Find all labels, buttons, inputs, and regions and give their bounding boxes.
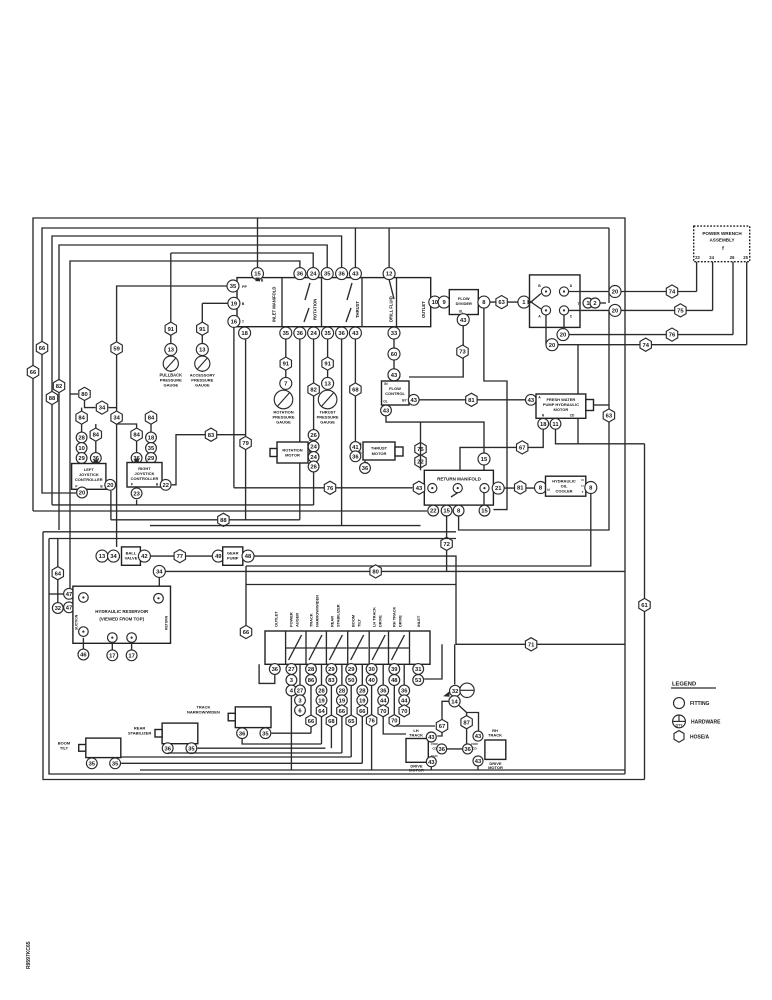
wire col lh track [371, 664, 373, 770]
svg-text:T: T [582, 490, 584, 494]
hose 82 [53, 379, 64, 392]
boom tilt cylinder [86, 738, 121, 758]
svg-text:88: 88 [220, 518, 227, 524]
svg-text:76: 76 [327, 486, 334, 492]
thrust motor shaft tab [395, 447, 403, 456]
wire col inlet stub [417, 662, 419, 665]
fitting 43 [388, 369, 400, 381]
svg-text:79: 79 [242, 441, 249, 447]
wire OL to return manifold [386, 416, 484, 470]
fitting 43 [388, 369, 400, 381]
svg-text:42: 42 [141, 554, 147, 560]
fitting 34 [108, 550, 120, 562]
wire inlet riser [424, 644, 442, 679]
hose 66 [357, 705, 367, 717]
svg-text:36: 36 [401, 689, 408, 695]
svg-text:84: 84 [133, 433, 140, 439]
wire B to accessory gauge [202, 302, 228, 304]
fitting 46 [78, 649, 89, 660]
wire flow divider OL [409, 315, 463, 378]
svg-text:70: 70 [401, 709, 407, 715]
fitting 32 [450, 685, 461, 696]
svg-text:35: 35 [188, 746, 195, 752]
fitting 42 [138, 550, 150, 562]
svg-text:91: 91 [168, 327, 175, 333]
svg-text:10: 10 [432, 300, 438, 306]
wire mid bus C [150, 525, 421, 527]
svg-text:47: 47 [66, 592, 72, 598]
svg-text:ASSEMBLY: ASSEMBLY [709, 238, 734, 243]
svg-text:INLET MANIFOLD: INLET MANIFOLD [272, 287, 277, 322]
svg-text:BOOM: BOOM [351, 615, 356, 627]
svg-text:28: 28 [308, 667, 315, 673]
fitting 23 [131, 488, 142, 499]
hose 76 [324, 481, 335, 494]
wire BM2 stub [131, 642, 133, 650]
hose 91 [280, 357, 291, 370]
wire flow divider drain to return manifold [484, 308, 507, 510]
svg-text:36: 36 [297, 331, 304, 337]
wire inside stub [483, 493, 485, 505]
svg-text:THRUST: THRUST [371, 446, 388, 451]
fitting 36 [269, 664, 280, 675]
fitting 47 [64, 588, 75, 599]
wire valve bank feed [246, 584, 456, 586]
rear stabilizer rod tab [155, 730, 162, 738]
hose 70 [399, 705, 409, 717]
fitting 35 [86, 758, 97, 769]
fitting 86 [306, 675, 317, 686]
fitting 24 [308, 327, 320, 339]
svg-text:22: 22 [162, 483, 168, 489]
gauge rotation pressure [274, 390, 293, 409]
left joystick controller [72, 464, 106, 490]
wire manifold divider 1 [281, 278, 283, 327]
hose 67 [436, 719, 447, 732]
wire col power auger [290, 664, 292, 770]
fitting 24 [308, 441, 319, 452]
svg-text:24: 24 [310, 455, 317, 461]
wire bank divider 7 [409, 631, 411, 664]
hose 67 [517, 441, 528, 454]
svg-text:87: 87 [463, 720, 469, 726]
wire inner bottom frame [49, 539, 625, 775]
fitting 29 [346, 664, 357, 675]
svg-text:R9597KC65: R9597KC65 [26, 941, 32, 969]
svg-text:63: 63 [606, 414, 613, 420]
fitting 19 [337, 695, 348, 706]
svg-text:STABILIZER: STABILIZER [128, 731, 151, 736]
fitting 60 [388, 348, 400, 360]
track valve bank [265, 631, 430, 664]
svg-text:TILT: TILT [357, 618, 362, 627]
svg-text:HARDWARE: HARDWARE [691, 720, 721, 726]
hose 88 [218, 513, 229, 526]
svg-text:31: 31 [415, 667, 422, 673]
fitting 36 [294, 327, 306, 339]
svg-text:NARROW/WIDEN: NARROW/WIDEN [315, 595, 320, 627]
reservoir port BL [79, 627, 89, 637]
svg-text:13: 13 [324, 381, 331, 387]
svg-text:RETURN MANIFOLD: RETURN MANIFOLD [437, 477, 481, 482]
wire bank divider 4 [347, 631, 349, 664]
svg-text:CONTROLLER: CONTROLLER [131, 476, 159, 481]
svg-text:80: 80 [372, 569, 378, 575]
svg-text:81: 81 [468, 398, 475, 404]
hose 66 [306, 715, 316, 727]
svg-text:20: 20 [107, 483, 113, 489]
wire bank mid line [369, 647, 389, 649]
svg-text:23: 23 [695, 255, 700, 260]
hose 66 [240, 625, 251, 638]
svg-text:13: 13 [99, 554, 106, 560]
svg-text:49: 49 [215, 554, 222, 560]
svg-text:67: 67 [439, 724, 445, 730]
fitting 9 [438, 296, 450, 308]
svg-text:43: 43 [428, 760, 435, 766]
svg-text:43: 43 [352, 272, 359, 278]
fitting 15 [479, 505, 490, 516]
svg-text:43: 43 [475, 734, 482, 740]
wire bus1 top loop [33, 218, 625, 774]
fitting 21 [492, 482, 504, 494]
wire mid bus D [52, 504, 314, 506]
svg-text:63: 63 [498, 300, 505, 306]
valve block port D [559, 287, 568, 296]
svg-text:28: 28 [78, 436, 85, 442]
svg-text:VALVE: VALVE [125, 556, 138, 561]
svg-text:83: 83 [328, 678, 335, 684]
fitting 44 [378, 695, 389, 706]
wire fitting36 column to bus [341, 339, 343, 526]
wire bus2 to return-manifold fitting 8 [459, 311, 609, 530]
svg-text:59: 59 [113, 346, 120, 352]
wire valve block internal [531, 294, 541, 310]
hose 79 [240, 436, 251, 449]
svg-text:35: 35 [283, 331, 290, 337]
fitting 35 [110, 758, 121, 769]
svg-text:GAUGE: GAUGE [163, 383, 178, 388]
fitting 22 [160, 479, 171, 490]
svg-text:HYDRAULIC RESERVOIR: HYDRAULIC RESERVOIR [95, 609, 149, 614]
fitting 35 [146, 443, 157, 454]
fitting 43 [457, 314, 469, 326]
wire hose 83 run [172, 435, 246, 485]
wire left controller column 2 [95, 424, 97, 464]
hose 68 [350, 383, 361, 396]
hose 91 [197, 322, 208, 335]
legend hardware symbol [673, 715, 686, 728]
fitting 26 [308, 430, 319, 441]
wire fitting23 drop [136, 500, 138, 505]
wire valve lower row 1 [564, 315, 733, 335]
svg-text:65: 65 [348, 719, 355, 725]
wire to pin 25 [746, 262, 748, 345]
fitting 36 [360, 463, 371, 474]
fitting 43 [473, 731, 483, 741]
svg-text:13: 13 [168, 348, 175, 354]
wire gear pump to hose 71 [254, 556, 625, 644]
hose 84 [145, 411, 156, 424]
svg-text:18: 18 [540, 422, 547, 428]
wire mid bus 88 [111, 519, 300, 521]
fitting 22 [428, 505, 439, 516]
wire suction drop [57, 539, 59, 603]
port tab left controller [94, 460, 98, 464]
svg-text:64: 64 [55, 571, 62, 577]
svg-text:19: 19 [231, 301, 238, 307]
wire gauge 32 feed [454, 644, 456, 684]
svg-text:36: 36 [380, 689, 387, 695]
fitting 43 [381, 405, 392, 416]
svg-text:PP: PP [242, 285, 247, 289]
lh track drive motor [406, 739, 428, 763]
hose 22 [415, 455, 426, 468]
port tab right controller [134, 459, 138, 463]
wire col track nw 2 [321, 664, 323, 744]
svg-text:44: 44 [401, 698, 408, 704]
fitting 10 [429, 296, 441, 308]
fitting 19 [228, 297, 240, 309]
fitting 40 [366, 675, 377, 686]
hose 34 [111, 411, 122, 424]
wire rh drain [477, 766, 479, 770]
fitting 8 [453, 505, 464, 516]
wire fitting15 riser [257, 218, 259, 268]
svg-text:34: 34 [156, 569, 163, 575]
hose 75 [675, 304, 686, 317]
fitting 28 [357, 685, 368, 696]
fitting 3 [286, 675, 297, 686]
wire controller B drop [110, 491, 112, 520]
fitting 48 [242, 550, 254, 562]
svg-text:15: 15 [481, 457, 488, 463]
wire 87 to fitting 36 [466, 729, 468, 744]
fitting 17 [126, 650, 137, 661]
hose 74 [666, 285, 677, 298]
svg-text:GAUGE: GAUGE [320, 420, 335, 425]
fitting 30 [366, 664, 377, 675]
wire fw N to return manifold [460, 429, 543, 470]
wire lh drain [430, 767, 432, 770]
svg-text:43: 43 [460, 318, 467, 324]
fitting 32 [52, 603, 63, 614]
flow divider [449, 290, 478, 315]
fitting 36 [463, 744, 473, 754]
svg-text:DIVIDER: DIVIDER [456, 301, 472, 306]
svg-text:66: 66 [359, 709, 366, 715]
svg-text:35: 35 [112, 761, 119, 767]
svg-text:32: 32 [55, 606, 61, 612]
svg-text:7: 7 [284, 381, 287, 387]
svg-text:HOSE/A: HOSE/A [690, 735, 710, 741]
svg-text:36: 36 [164, 746, 171, 752]
svg-text:CONTROL: CONTROL [385, 391, 405, 396]
fitting 36 [294, 268, 306, 280]
hose 77 [174, 550, 185, 563]
svg-text:74: 74 [669, 290, 676, 296]
fitting 83 [326, 675, 337, 686]
svg-text:84: 84 [148, 416, 155, 422]
fitting 33 [388, 327, 400, 339]
wire bank divider 3 [325, 631, 327, 664]
wire return to hose 72 [446, 516, 448, 571]
wire thrust gauge column [327, 339, 329, 378]
fitting 24 [308, 452, 319, 463]
wire col rh track 2 [403, 664, 405, 717]
wire col lh track 2 [383, 664, 406, 734]
fitting 31 [413, 664, 424, 675]
fitting 14 [449, 696, 460, 707]
fitting 35 [186, 743, 197, 754]
wire bank mid line [326, 647, 346, 649]
svg-text:26: 26 [730, 255, 735, 260]
wire to hose 80 [70, 393, 78, 395]
fitting 1 [518, 296, 530, 308]
reservoir port TR [154, 594, 164, 604]
fitting 35 [321, 268, 333, 280]
svg-text:28: 28 [339, 689, 346, 695]
svg-text:MOTOR: MOTOR [285, 453, 300, 458]
hose 43 [413, 481, 424, 494]
svg-text:2: 2 [593, 301, 596, 307]
wire fitting12 leader [389, 280, 394, 299]
wire 34 junction [109, 407, 117, 409]
svg-text:61: 61 [641, 603, 648, 609]
reservoir port TL [79, 593, 89, 603]
svg-text:88: 88 [49, 396, 56, 402]
svg-text:91: 91 [283, 362, 290, 368]
wire outlet branch [259, 664, 275, 683]
hose 72 [441, 537, 452, 550]
svg-text:81: 81 [517, 486, 524, 492]
fitting 36 [336, 327, 348, 339]
hose 71 [525, 638, 536, 651]
svg-text:70: 70 [391, 719, 397, 725]
port tab manifold TB [256, 278, 260, 282]
wire BL stub [82, 638, 84, 649]
fitting 13 [196, 344, 208, 356]
svg-text:67: 67 [519, 445, 525, 451]
svg-text:INLET: INLET [416, 615, 421, 627]
fitting 35 [260, 728, 271, 739]
gauge track pressure [460, 683, 474, 697]
fitting 36 [162, 743, 173, 754]
svg-text:THRUST: THRUST [355, 301, 360, 318]
wire fresh water tab [594, 404, 610, 406]
fitting 39 [389, 664, 400, 675]
svg-text:64: 64 [318, 709, 325, 715]
wire flow control OL stub [385, 405, 387, 416]
svg-text:MOTOR: MOTOR [372, 451, 387, 456]
wire rotation leader [305, 283, 310, 300]
svg-text:35: 35 [148, 446, 155, 452]
wire col boom tilt 2 [361, 664, 363, 763]
wire accessory gauge column [201, 303, 203, 372]
fitting 36 [399, 685, 410, 696]
svg-text:75: 75 [677, 308, 684, 314]
svg-text:66: 66 [243, 630, 250, 636]
fitting 36 [437, 744, 447, 754]
svg-text:29: 29 [78, 456, 85, 462]
fitting 13 [165, 344, 177, 356]
fitting 41 [350, 442, 361, 453]
wire right controller column 2 [150, 411, 152, 463]
fitting 15 [478, 453, 490, 465]
wire to pin 23 [696, 262, 698, 292]
svg-text:83: 83 [208, 433, 215, 439]
svg-text:24: 24 [310, 331, 317, 337]
fitting 18 [239, 327, 251, 339]
fitting 28 [76, 432, 87, 443]
wire bank mid line [389, 647, 409, 649]
valve block port A [541, 306, 550, 315]
fitting 43 [426, 757, 436, 767]
hose 34 [96, 401, 107, 414]
svg-text:24: 24 [310, 445, 317, 451]
wire bank mid line [286, 647, 306, 649]
wire bus6 loop [70, 261, 300, 588]
svg-text:PUMP: PUMP [227, 556, 239, 561]
wire right controller column 1 [136, 428, 138, 463]
svg-text:FITTING: FITTING [690, 701, 710, 707]
svg-text:DRIVE: DRIVE [398, 615, 403, 627]
svg-text:17: 17 [128, 653, 134, 659]
fitting 13 [322, 377, 334, 389]
hose 83 [205, 428, 216, 441]
wire rear stab 2 [168, 752, 342, 755]
fitting 43 [349, 327, 361, 339]
svg-text:18: 18 [148, 436, 155, 442]
svg-text:77: 77 [177, 554, 183, 560]
fitting 28 [316, 685, 327, 696]
svg-text:SUCTION: SUCTION [75, 614, 79, 630]
wire manifold divider 2 [321, 278, 323, 327]
wire fitting12 riser [388, 228, 390, 268]
svg-text:66: 66 [39, 346, 46, 352]
fitting 20 [105, 479, 116, 490]
wire col rh track [394, 664, 435, 726]
svg-text:28: 28 [318, 689, 325, 695]
wire track nw to col [271, 732, 311, 734]
fitting 36 [90, 453, 101, 464]
hydraulic oil cooler [546, 476, 586, 496]
wire boom stub [92, 757, 115, 763]
fitting 20 [557, 329, 569, 341]
svg-text:60: 60 [391, 352, 397, 358]
fitting 11 [550, 418, 561, 429]
svg-text:POWER WRENCH: POWER WRENCH [702, 231, 742, 236]
svg-text:66: 66 [30, 370, 37, 376]
svg-text:15: 15 [481, 509, 488, 515]
wire to pin 24 [712, 262, 714, 311]
wire mid bus A [33, 510, 427, 512]
power wrench valve block [530, 275, 581, 328]
svg-text:34: 34 [113, 416, 120, 422]
fitting 36 [131, 453, 142, 464]
svg-text:GAUGE: GAUGE [195, 383, 210, 388]
gear pump [223, 547, 243, 565]
svg-text:91: 91 [199, 327, 206, 333]
wire col boom tilt [350, 664, 352, 757]
wire bank divider 1 [285, 631, 287, 664]
svg-text:73: 73 [459, 350, 466, 356]
svg-text:OL: OL [383, 400, 387, 404]
gauge accessory pressure [195, 356, 210, 371]
reservoir port BM2 [127, 633, 137, 643]
svg-text:CD: CD [570, 414, 575, 418]
svg-text:22: 22 [430, 509, 436, 515]
